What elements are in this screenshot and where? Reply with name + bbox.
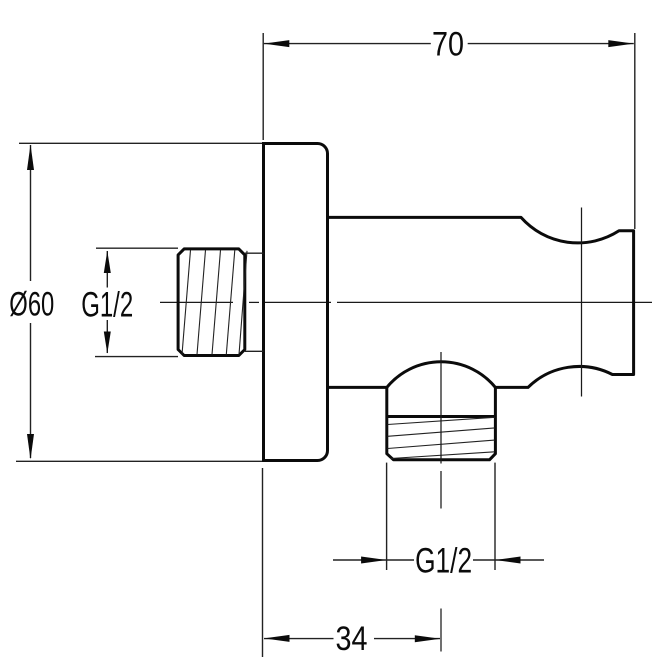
side inlet nut outline <box>178 249 245 356</box>
dimension O60 extension line bottom <box>16 460 262 462</box>
dimension 34 arrowheads <box>264 635 290 642</box>
bottom nut thread top line <box>387 415 496 418</box>
side nut thread hatch lines <box>182 250 247 355</box>
bottom nut thread hatch lines <box>388 417 495 458</box>
svg-text:70: 70 <box>432 25 464 63</box>
bottom outlet cylinder and nut outline <box>387 387 496 459</box>
dimension 34 line <box>264 638 440 640</box>
dimension O60 extension line top <box>19 142 262 144</box>
dimension O60 line <box>30 145 32 458</box>
collar between side nut and plate <box>245 253 264 351</box>
dimension 70 line <box>264 43 634 45</box>
dimension 70 extension line right <box>634 33 636 229</box>
svg-text:G1/2: G1/2 <box>415 541 472 580</box>
svg-text:G1/2: G1/2 <box>81 285 133 324</box>
dimension 70 extension line left <box>262 33 264 140</box>
dimension G1/2 left arrowheads <box>104 251 111 273</box>
dimension G1/2 bottom arrowheads <box>361 557 387 564</box>
svg-text:Ø60: Ø60 <box>9 285 54 323</box>
dimension G1/2 bottom extension line right <box>494 463 496 570</box>
wall plate escutcheon <box>264 144 328 461</box>
dimension 34 extension line left <box>262 468 264 657</box>
centerline horizontal through side inlet axis <box>160 301 652 303</box>
dimension G1/2 bottom extension line left <box>386 463 388 570</box>
dimension O60 arrowheads <box>27 145 34 171</box>
dimension 70 arrowheads <box>264 40 290 47</box>
svg-text:34: 34 <box>336 620 368 658</box>
dimension G1/2 left line <box>106 251 108 353</box>
dimension G1/2 left extension line bottom <box>95 356 178 358</box>
dimension G1/2 bottom line <box>333 559 544 561</box>
body outline with holder cradle <box>328 217 634 387</box>
centerline vertical outlet <box>440 352 442 652</box>
centerline vertical cradle <box>581 208 583 397</box>
dimension G1/2 left extension line top <box>96 247 178 249</box>
